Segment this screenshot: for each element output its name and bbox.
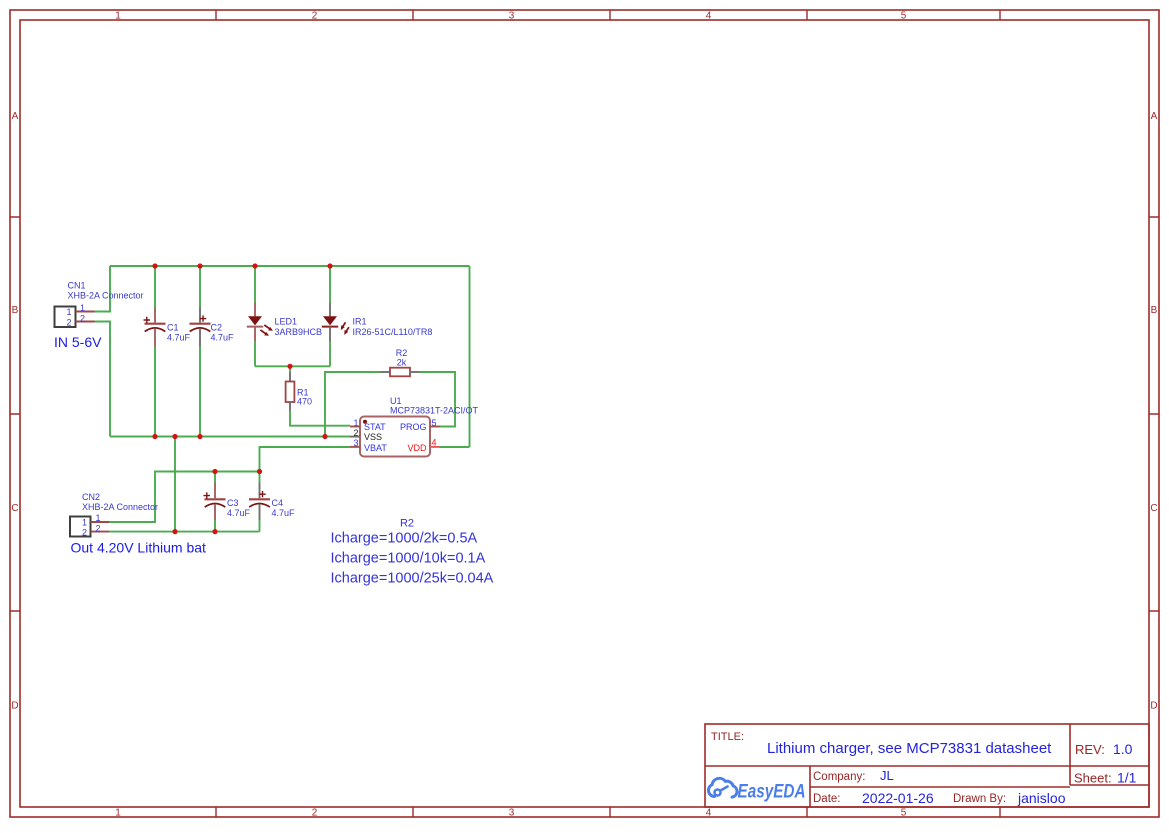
title block logo cell divider bbox=[809, 766, 811, 807]
frame row letters right bbox=[1150, 111, 1157, 712]
wire U1 pin3 VBAT to output node bbox=[260, 447, 351, 472]
svg-text:1.0: 1.0 bbox=[1113, 741, 1133, 757]
wire IR1 bottom bbox=[329, 341, 331, 366]
svg-text:janisloo: janisloo bbox=[1017, 790, 1066, 806]
frame row ticks right bbox=[1149, 217, 1159, 611]
wire output bottom bbox=[109, 531, 260, 533]
svg-text:1: 1 bbox=[80, 303, 85, 313]
svg-text:4.7uF: 4.7uF bbox=[167, 332, 191, 342]
svg-text:XHB-2A Connector: XHB-2A Connector bbox=[82, 502, 158, 512]
svg-text:4: 4 bbox=[706, 11, 712, 22]
wire ground rail bbox=[110, 436, 350, 438]
wire C3 column bbox=[214, 472, 216, 532]
svg-text:REV:: REV: bbox=[1075, 742, 1105, 757]
IC U1 MCP73831 bbox=[350, 396, 479, 457]
wire C1 bottom bbox=[154, 347, 156, 437]
wire C2 bottom bbox=[199, 347, 201, 437]
EasyEDA logo cloud bbox=[708, 778, 737, 797]
wire U1 pin5 to R2 bbox=[420, 372, 456, 427]
junction R2 return bbox=[322, 434, 327, 439]
svg-text:B: B bbox=[1151, 305, 1158, 316]
svg-text:VSS: VSS bbox=[364, 432, 382, 442]
title block sheet row divider bbox=[1070, 784, 1149, 786]
junction C1 top bbox=[152, 263, 157, 268]
svg-text:1: 1 bbox=[115, 808, 121, 819]
frame column ticks top bbox=[216, 10, 1000, 20]
svg-text:1: 1 bbox=[115, 11, 121, 22]
svg-text:C: C bbox=[1150, 503, 1157, 514]
svg-text:Icharge=1000/10k=0.1A: Icharge=1000/10k=0.1A bbox=[331, 551, 486, 567]
svg-text:Out 4.20V Lithium bat: Out 4.20V Lithium bat bbox=[71, 540, 207, 556]
wire ground link vertical bbox=[174, 437, 176, 532]
title block outline bbox=[705, 724, 1149, 807]
junction ground link bottom bbox=[172, 529, 177, 534]
wire LED1 bottom bbox=[254, 341, 256, 366]
U1 pin1 marker bbox=[363, 420, 367, 424]
svg-text:2: 2 bbox=[80, 313, 85, 323]
junction C3 bottom bbox=[212, 529, 217, 534]
svg-text:IR1: IR1 bbox=[353, 317, 367, 327]
svg-text:U1: U1 bbox=[390, 396, 402, 406]
wire C1 top bbox=[154, 266, 156, 307]
svg-text:2: 2 bbox=[82, 528, 87, 538]
svg-text:CN2: CN2 bbox=[82, 492, 100, 502]
U1 pin4 stub bbox=[430, 446, 440, 448]
wire R1 top bbox=[289, 366, 291, 372]
svg-text:4.7uF: 4.7uF bbox=[211, 332, 235, 342]
svg-text:5: 5 bbox=[901, 11, 907, 22]
svg-text:R2: R2 bbox=[400, 518, 414, 530]
wire C4 column bbox=[259, 472, 261, 532]
svg-text:D: D bbox=[1150, 701, 1157, 712]
svg-text:B: B bbox=[12, 305, 19, 316]
svg-text:4.7uF: 4.7uF bbox=[227, 508, 251, 518]
junction C2 top bbox=[197, 263, 202, 268]
title block REV column divider bbox=[1069, 724, 1071, 785]
capacitor C2 bbox=[190, 307, 235, 347]
frame row ticks left bbox=[10, 217, 20, 611]
svg-text:4: 4 bbox=[706, 808, 712, 819]
svg-text:C4: C4 bbox=[272, 498, 284, 508]
svg-text:Icharge=1000/2k=0.5A: Icharge=1000/2k=0.5A bbox=[331, 531, 478, 547]
junction C2 bottom bbox=[197, 434, 202, 439]
svg-text:470: 470 bbox=[297, 396, 312, 406]
svg-text:1: 1 bbox=[353, 418, 358, 428]
wire CN1 pin2 down bbox=[95, 322, 111, 437]
wire LED1 top bbox=[254, 266, 256, 303]
svg-text:C1: C1 bbox=[167, 322, 179, 332]
svg-text:D: D bbox=[11, 701, 18, 712]
frame column numbers top bbox=[115, 11, 907, 22]
wire output top bbox=[109, 472, 260, 523]
svg-text:2k: 2k bbox=[397, 358, 407, 368]
junction LED1 top bbox=[252, 263, 257, 268]
svg-text:C2: C2 bbox=[211, 322, 223, 332]
svg-text:4: 4 bbox=[432, 438, 437, 448]
junction R1 top node bbox=[287, 364, 292, 369]
svg-text:2: 2 bbox=[96, 523, 101, 533]
svg-text:5: 5 bbox=[432, 418, 437, 428]
svg-text:IN 5-6V: IN 5-6V bbox=[54, 334, 102, 350]
svg-text:XHB-2A Connector: XHB-2A Connector bbox=[68, 291, 144, 301]
connector CN2 bbox=[70, 492, 158, 537]
svg-text:Icharge=1000/25k=0.04A: Icharge=1000/25k=0.04A bbox=[331, 571, 494, 587]
svg-text:1: 1 bbox=[67, 307, 72, 317]
svg-text:2: 2 bbox=[312, 11, 318, 22]
svg-text:Date:: Date: bbox=[813, 793, 841, 805]
resistor R1 bbox=[286, 372, 312, 411]
wire IR1 top bbox=[329, 266, 331, 303]
frame row letters left bbox=[11, 111, 18, 712]
title block company/date divider bbox=[810, 786, 1070, 788]
frame column ticks bottom bbox=[216, 807, 1000, 817]
svg-text:2022-01-26: 2022-01-26 bbox=[862, 790, 934, 806]
wire R2 to ground rail bbox=[325, 372, 381, 437]
svg-text:Company:: Company: bbox=[813, 771, 865, 783]
wire LED1-IR1 link bbox=[255, 365, 330, 367]
svg-text:1/1: 1/1 bbox=[1117, 770, 1137, 786]
wire VDD pin4 to riser bbox=[440, 446, 470, 448]
svg-text:EasyEDA: EasyEDA bbox=[738, 782, 806, 803]
connector CN1 bbox=[55, 281, 144, 328]
svg-text:R2: R2 bbox=[396, 348, 408, 358]
svg-text:JL: JL bbox=[880, 768, 894, 783]
wire top power rail bbox=[110, 265, 470, 267]
svg-text:3: 3 bbox=[353, 438, 358, 448]
svg-text:4.7uF: 4.7uF bbox=[272, 508, 296, 518]
junction C3 top bbox=[212, 469, 217, 474]
capacitor C1 bbox=[144, 307, 191, 347]
title block title row divider bbox=[705, 765, 1149, 767]
svg-text:3ARB9HCB: 3ARB9HCB bbox=[275, 327, 323, 337]
svg-text:IR26-51C/L110/TR8: IR26-51C/L110/TR8 bbox=[353, 327, 433, 337]
svg-text:MCP73831T-2ACI/OT: MCP73831T-2ACI/OT bbox=[390, 405, 479, 415]
U1 pin2 stub bbox=[350, 436, 360, 438]
svg-text:LED1: LED1 bbox=[275, 317, 298, 327]
svg-text:Drawn By:: Drawn By: bbox=[953, 793, 1006, 805]
svg-text:A: A bbox=[1151, 111, 1158, 122]
svg-text:2: 2 bbox=[67, 317, 72, 327]
svg-text:C: C bbox=[11, 503, 18, 514]
capacitor C4 bbox=[249, 483, 295, 521]
svg-text:1: 1 bbox=[96, 513, 101, 523]
wire C2 top bbox=[199, 266, 201, 307]
LED IR1 (IR receiver) bbox=[322, 303, 433, 342]
junction IR1 top bbox=[327, 263, 332, 268]
frame column numbers bottom bbox=[115, 808, 907, 819]
svg-text:PROG: PROG bbox=[400, 422, 427, 432]
wire right VDD riser bbox=[469, 266, 471, 447]
svg-text:A: A bbox=[12, 111, 19, 122]
svg-text:STAT: STAT bbox=[364, 422, 386, 432]
junction C1 bottom bbox=[152, 434, 157, 439]
capacitor C3 bbox=[204, 483, 251, 521]
junction C4 top bbox=[257, 469, 262, 474]
svg-text:Sheet:: Sheet: bbox=[1074, 771, 1112, 786]
svg-text:TITLE:: TITLE: bbox=[711, 731, 744, 743]
svg-text:CN1: CN1 bbox=[68, 281, 86, 291]
resistor R2 bbox=[381, 348, 420, 376]
svg-text:Lithium charger, see MCP73831: Lithium charger, see MCP73831 datasheet bbox=[767, 740, 1052, 757]
svg-text:VDD: VDD bbox=[407, 443, 427, 453]
LED LED1 bbox=[247, 303, 322, 342]
wire CN1 pin1 to rail bbox=[95, 266, 111, 312]
svg-text:VBAT: VBAT bbox=[364, 443, 387, 453]
junction ground link top bbox=[172, 434, 177, 439]
svg-text:1: 1 bbox=[82, 517, 87, 527]
svg-text:C3: C3 bbox=[227, 498, 239, 508]
U1 pin5 stub bbox=[430, 426, 440, 428]
svg-text:3: 3 bbox=[509, 808, 515, 819]
U1 pin3 stub bbox=[350, 446, 360, 448]
svg-text:2: 2 bbox=[353, 428, 358, 438]
svg-text:5: 5 bbox=[901, 808, 907, 819]
U1 pin1 stub bbox=[350, 426, 360, 428]
svg-text:2: 2 bbox=[312, 808, 318, 819]
wire R1 bottom to U1 pin1 bbox=[290, 411, 350, 426]
svg-text:3: 3 bbox=[509, 11, 515, 22]
